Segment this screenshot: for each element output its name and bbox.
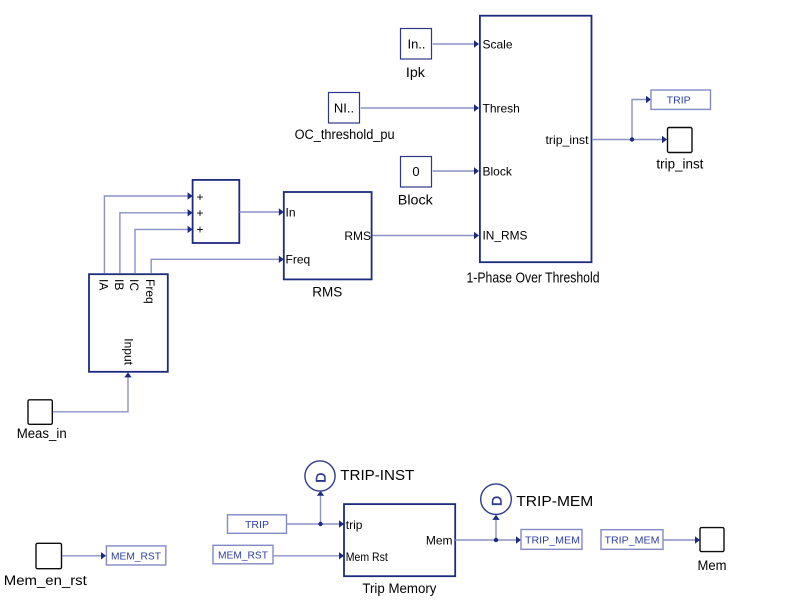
svg-text:Meas_in: Meas_in [17,426,67,441]
inport Mem_en_rst [36,543,62,568]
goto tag MEM_RST [106,546,165,565]
svg-text:TRIP: TRIP [667,95,691,107]
junction dot [630,137,634,141]
from tag TRIP [228,515,287,534]
svg-text:trip: trip [346,518,363,532]
outport trip_inst [668,128,693,153]
svg-text:trip_inst: trip_inst [656,157,703,172]
subsystem U1 1-Phase Over Threshold [480,16,592,263]
svg-text:Block: Block [483,164,513,178]
wire trip_inst output [592,96,667,143]
wire OC_threshold_pu to Thresh [361,104,479,111]
subsystem Trip Memory [344,504,455,576]
svg-text:RMS: RMS [344,229,371,243]
svg-text:TRIP-MEM: TRIP-MEM [516,493,593,510]
outport Mem [700,528,724,552]
svg-text:NI..: NI.. [334,100,354,115]
svg-text:In..: In.. [407,37,425,52]
svg-text:MEM_RST: MEM_RST [218,550,269,562]
svg-text:OC_threshold_pu: OC_threshold_pu [295,127,395,142]
svg-text:trip_inst: trip_inst [546,133,590,147]
viewer circle TRIP-INST [305,461,335,491]
svg-text:D: D [313,473,329,483]
goto tag TRIP [651,90,711,109]
svg-text:TRIP_MEM: TRIP_MEM [605,534,660,546]
svg-text:Freq: Freq [286,253,311,267]
svg-text:Block: Block [398,193,433,208]
inport Meas_in [28,400,52,425]
svg-text:+: + [196,223,203,237]
svg-text:IN_RMS: IN_RMS [483,229,528,243]
from tag MEM_RST [213,545,273,564]
svg-text:Scale: Scale [483,38,513,52]
wire sum to RMS In [240,208,284,215]
svg-text:D: D [489,496,505,506]
wire Mem_en_rst to MEM_RST goto [62,552,106,559]
svg-text:Mem: Mem [426,533,453,547]
wire TRIP from-tag to trip port + branch to viewer [287,491,345,528]
svg-text:TRIP_MEM: TRIP_MEM [525,534,580,546]
svg-text:IA: IA [96,279,110,290]
svg-text:Input: Input [122,338,136,365]
svg-text:1-Phase Over Threshold: 1-Phase Over Threshold [467,269,600,286]
subsystem RMS [284,192,372,279]
viewer circle TRIP-MEM [481,484,512,515]
wire TRIP_MEM from-tag to Mem outport [663,536,700,543]
wire Ipk to Scale [433,40,479,47]
svg-text:IB: IB [112,279,126,290]
subsystem Input (rotated) [89,274,168,372]
wire Block to Block port [433,167,479,174]
wire IA to sum [104,192,192,273]
junction dot [494,538,498,542]
constant block OC_threshold_pu [329,93,360,124]
svg-text:Trip Memory: Trip Memory [362,581,436,596]
svg-text:Mem_en_rst: Mem_en_rst [4,573,87,588]
svg-text:TRIP-INST: TRIP-INST [340,467,414,484]
svg-text:Mem: Mem [698,558,727,573]
wire IB to sum [120,209,193,273]
sum block [193,180,240,243]
wire Mem output + branch to viewer [455,515,521,544]
svg-text:Mem Rst: Mem Rst [346,550,389,564]
svg-text:Ipk: Ipk [406,65,425,80]
wire Meas_in to Input [53,372,132,411]
svg-text:+: + [196,190,203,204]
svg-text:RMS: RMS [312,285,342,300]
svg-text:Freq: Freq [143,279,157,304]
svg-text:In: In [286,205,296,219]
wire MEM_RST from-tag to Mem Rst port [273,552,344,559]
wire Freq to RMS [151,256,284,273]
svg-text:Thresh: Thresh [483,101,520,115]
svg-text:MEM_RST: MEM_RST [111,550,162,562]
constant block Block [401,157,432,188]
wire IC to sum [135,226,193,273]
svg-text:+: + [196,206,203,220]
from tag TRIP_MEM [601,530,663,550]
svg-text:0: 0 [412,164,419,179]
constant block Ipk [401,29,432,60]
junction dot [318,522,322,526]
wire RMS to IN_RMS [373,232,480,239]
svg-text:IC: IC [127,279,141,291]
svg-text:TRIP: TRIP [245,519,269,531]
goto tag TRIP_MEM [521,530,582,550]
